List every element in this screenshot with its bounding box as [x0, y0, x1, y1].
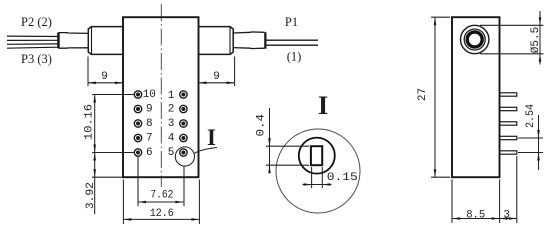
- svg-text:9: 9: [146, 103, 153, 115]
- svg-text:12.6: 12.6: [150, 208, 174, 220]
- dim phi5.5 extension lines: [480, 24, 544, 26]
- dim 12.6 arrows: [123, 218, 131, 221]
- svg-text:9: 9: [101, 71, 108, 83]
- side pin 3: [500, 122, 517, 125]
- dim 9 right arrows: [199, 82, 207, 85]
- pin 8: [134, 120, 141, 127]
- right boot tube: [233, 32, 264, 49]
- dim 9 left: dimension line: [88, 82, 123, 84]
- dim 2.54 arrows: [537, 130, 540, 138]
- dim 0.15 arrows: [304, 183, 312, 186]
- pin 9: [134, 105, 141, 112]
- svg-text:7: 7: [146, 132, 153, 144]
- dim 8.5 arrows: [452, 217, 460, 220]
- dim 9 right: dimension line: [199, 82, 235, 84]
- detail pin cross-section rect: [311, 146, 322, 165]
- detail circle around pin 5: [175, 147, 194, 166]
- svg-text:I: I: [207, 125, 216, 150]
- dim 12.6 dimension line: [123, 218, 199, 220]
- svg-text:P2 (2): P2 (2): [21, 15, 52, 29]
- detail view boundary circle: [276, 129, 360, 213]
- svg-text:Ø5.5: Ø5.5: [530, 27, 542, 53]
- svg-text:2.54: 2.54: [525, 104, 537, 128]
- dim 3.92 extension (body bottom extended): [92, 176, 122, 178]
- side pin 4: [500, 136, 517, 139]
- output fiber P1 (2 lines): [267, 39, 319, 41]
- dim 0.4 dimension line: [269, 108, 271, 168]
- dim 7.62 extension lines: [137, 157, 139, 207]
- pin 3: [180, 120, 187, 127]
- dim phi5.5 arrows: [539, 17, 542, 25]
- svg-text:0.4: 0.4: [255, 114, 267, 137]
- svg-text:5: 5: [168, 147, 175, 159]
- svg-text:4: 4: [168, 132, 175, 144]
- dim 0.15 extension lines: [311, 167, 313, 188]
- pin 4: [180, 134, 187, 141]
- dim 7.62 arrows: [138, 201, 146, 204]
- dim 2.54 dimension line: [538, 115, 540, 170]
- left boot end cap: [57, 33, 59, 49]
- dim 10.16 / 3.92 dimension line: [94, 95, 96, 215]
- right sleeve cap line: [229, 27, 231, 55]
- pin 7: [134, 134, 141, 141]
- pin 2: [180, 105, 187, 112]
- dim 8.5 / 3 dimension line: [452, 218, 517, 220]
- svg-text:(1): (1): [287, 50, 302, 64]
- right boot end cap: [264, 32, 266, 49]
- left sleeve ferrule: [88, 27, 123, 55]
- dim 0.15 dimension line: [303, 184, 332, 186]
- side ferrule outer circle: [461, 25, 489, 53]
- dim 3 arrows: [500, 217, 508, 220]
- dim 27 extension lines: [431, 16, 450, 18]
- svg-text:2: 2: [168, 103, 175, 115]
- switch body outline: [123, 17, 199, 177]
- dim 10.16 extension lines: [92, 94, 134, 96]
- dim 0.4 extension lines: [266, 145, 309, 147]
- svg-text:P1: P1: [285, 15, 298, 29]
- svg-text:7.62: 7.62: [150, 190, 173, 202]
- pin 1: [180, 91, 187, 98]
- svg-text:3.92: 3.92: [85, 182, 97, 209]
- svg-text:8.5: 8.5: [466, 209, 485, 221]
- dim 3 extension line: [516, 156, 518, 223]
- pin 10: [134, 91, 141, 98]
- detail pin hole circle: [299, 138, 335, 174]
- svg-text:27: 27: [417, 88, 429, 101]
- left boot tube: [59, 33, 88, 49]
- svg-text:1: 1: [168, 90, 175, 102]
- leader line to detail label: [194, 148, 217, 154]
- dim phi5.5 dimension line: [539, 11, 541, 65]
- svg-text:9: 9: [213, 71, 220, 83]
- side pin 2: [500, 107, 517, 110]
- svg-text:6: 6: [146, 147, 153, 159]
- pin 6: [134, 149, 141, 156]
- side ferrule dark ring: [467, 32, 482, 47]
- pin 5: [180, 149, 187, 156]
- dim 2.54 extension lines: [518, 137, 543, 139]
- left sleeve cap line: [91, 27, 93, 55]
- side body outline: [452, 17, 500, 177]
- svg-text:0.15: 0.15: [327, 172, 358, 184]
- svg-text:I: I: [318, 91, 328, 120]
- svg-text:3: 3: [503, 209, 510, 221]
- side pin 5: [500, 151, 517, 154]
- svg-text:10: 10: [143, 89, 156, 101]
- input fibers P2/P3 (4 lines): [7, 35, 58, 37]
- dim 7.62 dimension line: [138, 201, 183, 203]
- dim 0.4 arrows: [268, 138, 271, 146]
- arrowheads front view: [88, 82, 235, 221]
- dim 10.16 arrows: [93, 95, 96, 103]
- dim 3.92 arrows: [93, 153, 96, 161]
- dim 12.6 extension lines: [122, 180, 124, 225]
- dim 9 right: extension line: [234, 57, 236, 87]
- right sleeve ferrule: [199, 27, 234, 55]
- svg-text:8: 8: [146, 118, 153, 130]
- dim 27 dimension line: [434, 17, 436, 177]
- dim 27 arrows: [434, 17, 437, 25]
- dim 8.5 extension lines: [451, 180, 453, 224]
- dim 9 left arrows: [88, 82, 96, 85]
- svg-text:3: 3: [168, 118, 175, 130]
- svg-text:10.16: 10.16: [83, 104, 95, 140]
- svg-text:P3 (3): P3 (3): [21, 52, 52, 66]
- dim 9 left: extension line: [87, 57, 89, 87]
- side pin 1: [500, 93, 517, 96]
- side ferrule middle circle: [464, 29, 485, 50]
- centerline: [160, 4, 162, 187]
